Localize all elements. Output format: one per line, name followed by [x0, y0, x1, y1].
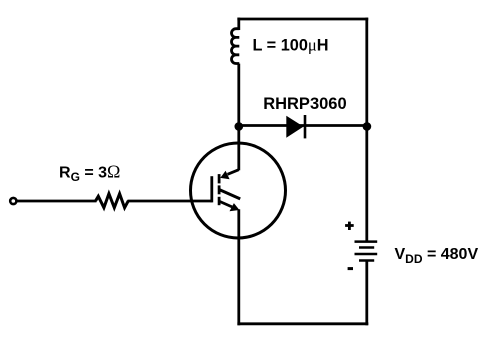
transistor Q1 middle tap diagonal — [220, 190, 240, 199]
label: battery polarity - — [348, 267, 353, 270]
inductor L = 100uH (coil, 4 loops) — [232, 29, 240, 64]
wire: left rail (inductor bottom through diode node to collector bend) — [237, 64, 240, 171]
transistor Q1 collector diagonal — [228, 170, 239, 175]
wire: gate lead left segment (terminal to resistor) — [16, 200, 97, 203]
transistor Q1 emitter diagonal — [220, 202, 232, 207]
wire: right rail top (top rail to battery +) — [365, 18, 368, 241]
wire: top rail — [237, 18, 368, 21]
wire: gate lead right segment (resistor to gate bar) — [128, 200, 212, 203]
transistor Q1 collector arrowhead (pointing into channel) — [220, 171, 229, 180]
diode D1 cathode bar — [304, 115, 307, 138]
svg-text:RHRP3060: RHRP3060 — [263, 95, 346, 113]
wire: bottom rail — [237, 322, 368, 325]
transistor Q1 gate bar — [210, 176, 213, 202]
resistor RG (zigzag) — [96, 194, 129, 208]
node: junction dot at diode cathode / VDD rail — [363, 122, 372, 131]
svg-text:RG = 3Ω: RG = 3Ω — [59, 162, 120, 185]
diode D1 RHRP3060 (anode triangle) — [286, 116, 303, 138]
wire: emitter lead to bottom rail — [237, 209, 240, 325]
wire: left rail top (top rail to inductor) — [237, 18, 240, 30]
battery VDD (two cells: long-short-long-short plates) — [355, 242, 378, 261]
transistor Q1 emitter arrowhead (pointing out) — [230, 203, 240, 211]
wire: right rail bottom (battery - to bottom rail) — [365, 261, 368, 326]
node: junction dot at diode anode / collector rail — [235, 122, 244, 131]
transistor Q1 body circle — [191, 143, 286, 238]
label: battery polarity + — [345, 222, 354, 230]
wire: diode branch (node to node) — [239, 124, 367, 127]
transistor Q1 channel bar (three dashes) — [218, 174, 221, 205]
transistor Q1 (IGBT) — [191, 143, 286, 238]
input terminal (open circle) — [10, 198, 16, 204]
svg-text:L = 100μH: L = 100μH — [253, 35, 329, 54]
